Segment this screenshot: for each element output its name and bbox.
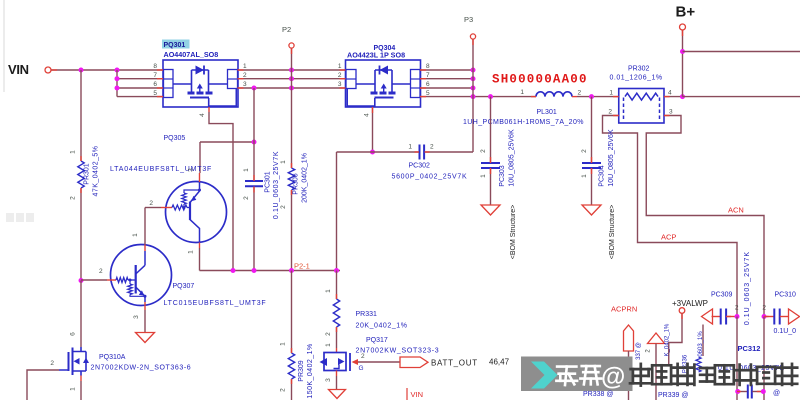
mosfet PQ304 gate: [375, 97, 394, 99]
junction P3 net7: [471, 76, 476, 81]
capacitor PC309: [712, 316, 721, 318]
svg-text:PR302: PR302: [628, 66, 650, 73]
transistor PQ305 pin1 stub: [199, 243, 201, 249]
svg-text:20K_0402_1%: 20K_0402_1%: [356, 323, 408, 330]
svg-text:PC312: PC312: [738, 344, 761, 353]
svg-text:2N7002KW_SOT323-3: 2N7002KW_SOT323-3: [356, 348, 440, 355]
wire P2 vertical: [291, 48, 293, 168]
svg-text:2: 2: [280, 388, 287, 392]
svg-text:ACN: ACN: [728, 206, 744, 215]
svg-text:0.1U_0: 0.1U_0: [774, 328, 797, 335]
svg-text:PQ307: PQ307: [173, 283, 195, 290]
wire PQ307 emitter down: [144, 310, 146, 333]
junction PC303: [488, 94, 493, 99]
ground PC303: [481, 205, 500, 215]
transistor PQ310A source wire: [80, 376, 82, 382]
mosfet PQ304 substrate arrow: [381, 84, 387, 89]
svg-text:7: 7: [153, 72, 157, 79]
junction ACN PC310: [762, 314, 767, 319]
junction pin3 branch: [252, 86, 257, 91]
svg-text:0603_1%: 0603_1%: [698, 331, 704, 357]
svg-text:PQ310A: PQ310A: [99, 354, 126, 361]
svg-text:PR338 @: PR338 @: [583, 391, 613, 398]
svg-text:BATT_OUT: BATT_OUT: [431, 359, 478, 368]
svg-text:PC309: PC309: [711, 292, 733, 299]
svg-text:1: 1: [480, 174, 487, 178]
mosfet PQ304 body diode: [380, 66, 389, 75]
wire PC303 vertical top: [490, 97, 492, 163]
svg-text:VIN: VIN: [411, 390, 424, 399]
wire PC304 vertical bottom: [591, 168, 593, 205]
svg-text:4: 4: [668, 90, 672, 97]
wire PR306 bottom: [291, 190, 293, 271]
mosfet PQ301 highlight: [162, 40, 190, 49]
wire PR301 bottom: [80, 188, 82, 281]
junction P2 net1: [289, 68, 294, 73]
wire PQ304 pin4 vertical: [372, 107, 374, 152]
junction P2-1 c: [289, 268, 294, 273]
junction x254 y142: [252, 140, 257, 145]
transistor PQ317 source wire: [336, 371, 338, 377]
svg-text:ACPRN: ACPRN: [611, 305, 637, 314]
svg-text:0.1U_0603_25V7K: 0.1U_0603_25V7K: [273, 151, 280, 219]
net pointer BATT_OUT: [400, 357, 428, 368]
svg-text:3: 3: [188, 168, 195, 172]
svg-text:PQ305: PQ305: [164, 135, 186, 142]
wire PQ304 pin8: [420, 69, 473, 71]
ground PQ307: [136, 333, 155, 343]
svg-text:1: 1: [243, 168, 250, 172]
wire PC304 vertical top: [591, 97, 593, 163]
svg-text:3: 3: [243, 81, 247, 88]
test point B+: [680, 24, 686, 30]
svg-text:6: 6: [70, 332, 77, 336]
svg-text:0.01_1206_1%: 0.01_1206_1%: [610, 75, 663, 82]
ground PQ317: [329, 390, 346, 399]
svg-text:6: 6: [426, 81, 430, 88]
junction P3 net8: [471, 68, 476, 73]
junction P2-1 b: [252, 268, 257, 273]
svg-text:46,47: 46,47: [489, 358, 510, 367]
wire PQ301 pin4: [208, 107, 210, 112]
mosfet PQ301 contacts: [188, 92, 213, 95]
svg-text:200K_0402_1%: 200K_0402_1%: [302, 153, 309, 203]
svg-text:1: 1: [408, 144, 412, 151]
page border line: [3, 0, 5, 92]
svg-text:1: 1: [280, 160, 287, 164]
svg-text:PQ301: PQ301: [164, 42, 186, 49]
pin stubs red: [157, 69, 163, 71]
transistor PQ305 collector diag: [190, 220, 200, 243]
net pointer ACPRN: [624, 325, 634, 351]
wire PQ301 pin6: [117, 87, 163, 89]
ground PC304: [582, 205, 601, 215]
svg-text:4: 4: [364, 113, 371, 117]
wire PC302 left: [337, 151, 420, 153]
capacitor PC304: [582, 162, 601, 164]
wire net2 pins2: [238, 78, 346, 80]
svg-text:1: 1: [325, 343, 332, 347]
watermark band: [521, 357, 633, 392]
svg-text:2: 2: [50, 360, 54, 367]
svg-text:3: 3: [133, 315, 140, 319]
transistor PQ307 collector line: [136, 265, 145, 274]
wire x336 vertical: [336, 152, 338, 271]
svg-text:PR301: PR301: [84, 163, 91, 185]
svg-text:8: 8: [153, 63, 157, 70]
svg-text:2: 2: [99, 268, 103, 275]
wire PQ305 collector drop: [199, 142, 201, 173]
wire B+ branch right: [683, 51, 800, 53]
svg-text:1: 1: [243, 63, 247, 70]
wire pin stub vertical x117: [116, 70, 118, 97]
svg-text:1: 1: [325, 289, 332, 293]
mosfet PQ301 right pad: [228, 70, 238, 89]
svg-text:@: @: [601, 363, 625, 391]
svg-text:LTC015EUBFS8TL_UMT3F: LTC015EUBFS8TL_UMT3F: [164, 300, 267, 307]
wire stub x703: [702, 325, 704, 357]
test point +3VALWP: [679, 308, 685, 314]
capacitor PC312: [737, 391, 747, 393]
wire net3 pins3: [238, 87, 346, 89]
transistor PQ307 body: [111, 245, 172, 306]
svg-text:1: 1: [132, 233, 139, 237]
junction P3 main: [471, 94, 476, 99]
svg-text:PR331: PR331: [356, 311, 378, 318]
watermark chevron: [531, 362, 558, 389]
junction VIN-PR301: [79, 68, 84, 73]
mosfet PQ301 left pad: [164, 70, 174, 98]
svg-text:2: 2: [280, 205, 287, 209]
svg-text:PL301: PL301: [537, 109, 557, 116]
svg-text:1: 1: [581, 174, 588, 178]
junction PQ304 pin4 net: [370, 150, 375, 155]
junction ACP PC309: [735, 314, 740, 319]
power symbol small: [648, 333, 665, 344]
svg-text:2: 2: [430, 144, 434, 151]
svg-text:P2: P2: [282, 25, 291, 34]
svg-text:AO4407AL_SO8: AO4407AL_SO8: [164, 50, 219, 59]
junction P2-1 a: [231, 268, 236, 273]
svg-text:337 @: 337 @: [636, 342, 642, 360]
svg-text:2: 2: [243, 196, 250, 200]
svg-text:LTA044EUBFS8TL_UMT3F: LTA044EUBFS8TL_UMT3F: [110, 166, 212, 173]
junction pin6: [115, 86, 120, 91]
svg-text:VIN: VIN: [8, 62, 29, 77]
svg-text:PR339 @: PR339 @: [658, 392, 688, 399]
wire main output: [420, 96, 536, 98]
svg-text:PQ317: PQ317: [366, 337, 388, 344]
svg-text:2: 2: [325, 332, 332, 336]
wire PQ301 pin5: [117, 96, 163, 98]
svg-text:AO4423L 1P SO8: AO4423L 1P SO8: [347, 51, 405, 60]
svg-text:P2-1: P2-1: [294, 262, 310, 271]
junction PC312 right: [761, 389, 766, 394]
svg-text:<BOM Structure>: <BOM Structure>: [609, 205, 616, 259]
svg-text:5: 5: [153, 90, 157, 97]
net pointer PC309: [702, 309, 713, 324]
svg-text:2: 2: [338, 72, 342, 79]
wire +3VALWP down: [669, 313, 682, 365]
junction PQ307 base: [79, 278, 84, 283]
svg-text:PC310: PC310: [775, 292, 797, 299]
wire net1 pins1: [238, 69, 346, 71]
svg-text:+3VALWP: +3VALWP: [672, 299, 708, 308]
faint watermark: [6, 213, 34, 222]
svg-text:1: 1: [70, 387, 77, 391]
mosfet PQ304 symbol: [356, 70, 411, 92]
wire net P2-1: [200, 270, 341, 272]
transistor PQ317 gate bar: [349, 353, 351, 371]
wire x254 vertical: [253, 88, 255, 142]
svg-text:2N7002KDW-2N_SOT363-6: 2N7002KDW-2N_SOT363-6: [91, 365, 192, 372]
net pointer PC310: [789, 309, 800, 324]
svg-text:1: 1: [520, 89, 524, 96]
wire PC302 right: [425, 151, 473, 153]
junction PC312 left: [735, 389, 740, 394]
capacitor PC302: [419, 145, 421, 160]
svg-text:PC301: PC301: [265, 171, 272, 193]
wire PQ307 collector up: [145, 207, 161, 209]
svg-text:7: 7: [426, 72, 430, 79]
junction P2-1 d: [334, 268, 339, 273]
mosfet PQ304 right pad: [411, 70, 421, 98]
transistor PQ310A symbol: [69, 348, 73, 376]
wire PQ304 pin7: [420, 78, 473, 80]
svg-text:1: 1: [70, 150, 77, 154]
wire main to right edge: [683, 96, 800, 98]
mosfet PQ301 body: [163, 60, 238, 107]
svg-text:6: 6: [153, 81, 157, 88]
wire PC301 bottom: [253, 187, 255, 271]
wire gate to BATT_OUT: [358, 361, 400, 363]
wire VIN horizontal: [51, 69, 163, 71]
wire coil to PR302: [577, 96, 619, 98]
svg-text:4: 4: [199, 113, 206, 117]
transistor PQ305 body: [166, 182, 227, 243]
svg-text:PR306: PR306: [293, 173, 300, 195]
svg-text:1: 1: [188, 250, 195, 254]
transistor PQ305 emitter diag: [190, 191, 200, 203]
mosfet PQ301 gate: [190, 97, 209, 99]
svg-text:@: @: [773, 390, 780, 397]
junction P2 net3: [289, 86, 294, 91]
wire power down: [655, 344, 657, 401]
mosfet PQ301 body diode: [196, 66, 205, 75]
wire PQ305 emitter down: [199, 248, 201, 271]
wire PC303 vertical bottom: [490, 168, 492, 205]
wire PQ304 pin6: [420, 87, 473, 89]
svg-text:1: 1: [338, 63, 342, 70]
svg-text:2: 2: [581, 149, 588, 153]
test point VIN circle: [45, 67, 51, 73]
junction B+ branch: [680, 49, 685, 54]
svg-text:3: 3: [669, 109, 673, 116]
svg-text:10U_0805_25V6K: 10U_0805_25V6K: [509, 129, 516, 187]
mosfet PQ304 contacts: [371, 92, 396, 95]
svg-text:10U_0805_25V6K: 10U_0805_25V6K: [608, 129, 615, 187]
mosfet PQ301 symbol: [173, 70, 228, 92]
junction PC304: [589, 94, 594, 99]
svg-text:K_0402_1%: K_0402_1%: [665, 323, 671, 356]
svg-text:1: 1: [609, 90, 613, 97]
svg-text:3: 3: [325, 378, 332, 382]
junction B+ main: [680, 94, 685, 99]
wire ACP from PR302 pin2: [603, 116, 738, 317]
svg-text:PC302: PC302: [409, 163, 431, 170]
wire PR331 to PQ317: [336, 327, 338, 348]
svg-text:5600P_0402_25V7K: 5600P_0402_25V7K: [392, 174, 468, 181]
junction P2 net2: [289, 76, 294, 81]
mosfet PQ304 body: [346, 60, 421, 107]
watermark dark text: [630, 364, 652, 386]
svg-text:PC304: PC304: [599, 165, 606, 187]
svg-text:2: 2: [735, 305, 739, 312]
transistor PQ307 emitter: [136, 287, 145, 296]
svg-text:8: 8: [426, 63, 430, 70]
wire VIN to PR301: [80, 70, 82, 161]
svg-text:G: G: [359, 365, 364, 372]
svg-text:2: 2: [243, 72, 247, 79]
svg-text:<BOM Structure>: <BOM Structure>: [510, 205, 517, 259]
svg-text:SH00000AA00: SH00000AA00: [492, 73, 588, 87]
wire PR302 pin4: [664, 96, 683, 98]
svg-text:150K_0402_1%: 150K_0402_1%: [307, 343, 314, 398]
resistor PR302 body: [619, 89, 664, 124]
resistor PR336 zigzag: [696, 357, 701, 372]
svg-text:3: 3: [338, 81, 342, 88]
svg-text:2: 2: [608, 109, 612, 116]
junction pin7: [115, 76, 120, 81]
wire PQ301 pin7: [117, 78, 163, 80]
wire ACN from PR302 pin3: [646, 116, 764, 317]
transistor PQ305 internal resistor: [182, 193, 187, 204]
wire ACN down to PC312: [763, 317, 765, 401]
wire P3 vertical: [472, 39, 474, 152]
svg-text:0.1U_0603_25V7K: 0.1U_0603_25V7K: [744, 251, 751, 325]
svg-text:2: 2: [149, 200, 153, 207]
net label VIN bottom: [406, 388, 408, 400]
watermark text white: [556, 367, 577, 386]
capacitor PC310: [764, 316, 774, 318]
capacitor PC303: [481, 162, 500, 164]
svg-text:ACP: ACP: [661, 233, 676, 242]
svg-text:2: 2: [578, 90, 582, 97]
wire ACP down to PC312: [736, 317, 738, 401]
svg-text:47K_0402_5%: 47K_0402_5%: [93, 146, 100, 197]
wire gate cross: [200, 141, 254, 143]
svg-text:1: 1: [280, 342, 287, 346]
svg-text:2: 2: [70, 196, 77, 200]
svg-text:2: 2: [762, 305, 766, 312]
svg-text:2: 2: [480, 149, 487, 153]
wire PR309 bottom: [291, 379, 293, 400]
junction P3 net6: [471, 86, 476, 91]
svg-text:P3: P3: [464, 15, 473, 24]
transistor PQ307 internal resistor: [128, 284, 133, 295]
junction VIN stub: [115, 68, 120, 73]
svg-text:PC303: PC303: [499, 165, 506, 187]
wire ACPRN down: [628, 351, 630, 400]
mosfet PQ301 substrate arrow: [197, 84, 203, 89]
svg-text:2: 2: [361, 353, 365, 360]
wire base from junction: [81, 279, 107, 281]
wire B+ vertical: [682, 30, 684, 97]
transistor PQ307 pin3 stub: [144, 302, 146, 310]
svg-text:PR309: PR309: [298, 360, 305, 382]
mosfet PQ304 left pad: [346, 70, 356, 89]
svg-text:1UH_PCMB061H-1R0MS_7A_20%: 1UH_PCMB061H-1R0MS_7A_20%: [463, 119, 584, 126]
svg-text:B+: B+: [676, 4, 696, 21]
